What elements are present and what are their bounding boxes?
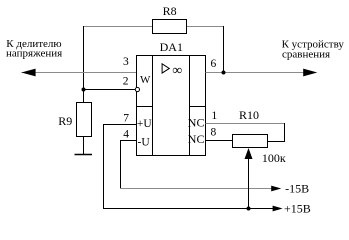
svg-text:DA1: DA1 xyxy=(160,40,183,54)
node junction dot right xyxy=(222,71,226,75)
potentiometer R10 xyxy=(233,108,286,165)
svg-text:R8: R8 xyxy=(163,4,177,18)
resistor R9 xyxy=(58,103,91,137)
wire pin1 vertical down xyxy=(268,123,285,142)
wire pin8 to R10 left xyxy=(206,140,233,142)
wire pin3 input line xyxy=(22,72,137,74)
svg-text:W: W xyxy=(140,74,151,86)
wire -15V rail xyxy=(120,188,272,190)
wire pin2 line xyxy=(84,89,136,91)
op-amp triangle symbol xyxy=(162,64,169,73)
svg-text:NC: NC xyxy=(188,116,205,130)
node junction dot left xyxy=(82,88,86,92)
svg-text:напряжения: напряжения xyxy=(6,48,62,60)
svg-text:2: 2 xyxy=(123,75,129,87)
svg-text:-U: -U xyxy=(138,137,151,149)
svg-text:R9: R9 xyxy=(58,114,72,128)
svg-text:NC: NC xyxy=(188,132,205,146)
svg-text:1: 1 xyxy=(212,110,218,122)
wire right feedback vertical xyxy=(223,26,225,73)
wire pin4 -U supply xyxy=(121,141,137,189)
svg-text:4: 4 xyxy=(123,129,129,141)
svg-text:сравнения: сравнения xyxy=(282,49,330,61)
arrow +15V xyxy=(273,206,283,212)
pin 2 inversion circle xyxy=(135,87,139,91)
arrow to divider (left) xyxy=(21,69,35,77)
svg-text:7: 7 xyxy=(123,113,129,125)
svg-text:+U: +U xyxy=(137,118,152,130)
svg-text:8: 8 xyxy=(211,127,217,139)
arrow to comparator (right) xyxy=(303,69,317,77)
svg-text:+15В: +15В xyxy=(284,202,311,216)
ground xyxy=(75,154,93,156)
arrow -15V xyxy=(271,186,281,192)
wire top feedback horizontal xyxy=(84,26,224,28)
op-amp U1 DA1 package box xyxy=(137,40,206,156)
svg-text:3: 3 xyxy=(123,56,129,68)
wire pin7 +U supply xyxy=(104,125,274,209)
svg-text:R10: R10 xyxy=(239,108,259,122)
svg-text:∞: ∞ xyxy=(172,64,182,79)
svg-text:100к: 100к xyxy=(262,151,286,165)
wire pin1 to R10 right xyxy=(206,123,286,125)
wire left feedback vertical xyxy=(83,26,85,103)
wiper arrow of R10 xyxy=(245,148,253,159)
wire pin6 output line xyxy=(206,72,305,74)
node junction dot wiper/+15V xyxy=(247,207,251,211)
svg-text:6: 6 xyxy=(211,58,217,70)
resistor R8 xyxy=(153,4,187,34)
wire R9 to ground xyxy=(83,137,85,155)
wire wiper to +15V rail xyxy=(248,157,250,209)
svg-text:-15В: -15В xyxy=(285,181,309,195)
